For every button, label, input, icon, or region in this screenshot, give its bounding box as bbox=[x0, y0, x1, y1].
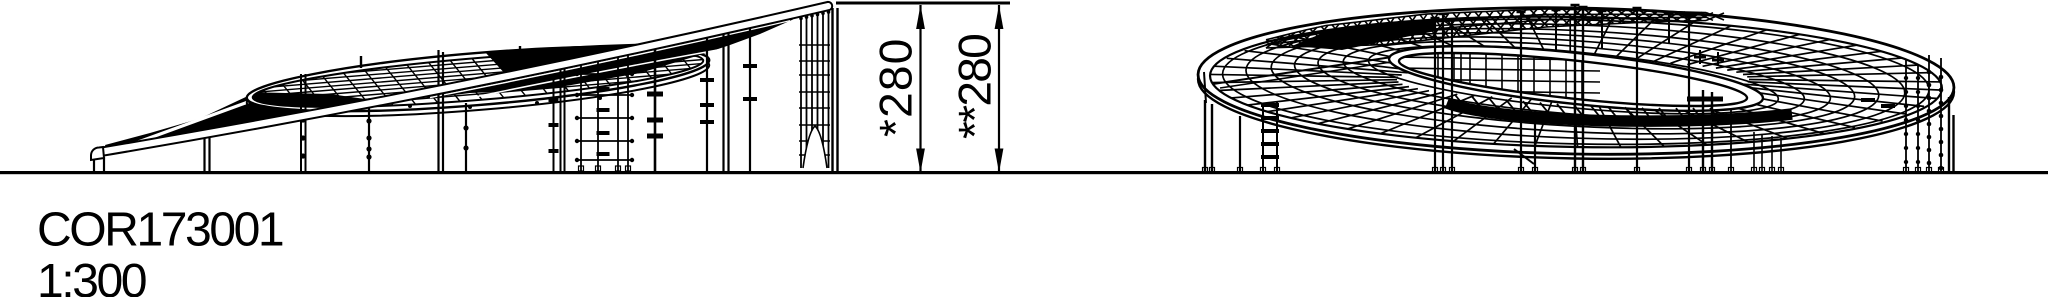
ground line bbox=[0, 171, 2048, 174]
ring outer rim bbox=[1197, 1, 1955, 160]
small connector dots under loop bbox=[408, 104, 412, 108]
dark sliver above tube bbox=[485, 43, 650, 73]
climbing ladder cluster x=578..630 bbox=[580, 60, 582, 173]
dimension line *280 bbox=[919, 5, 921, 173]
pole with steps x=655 bbox=[654, 45, 657, 173]
double post x=726 bbox=[722, 28, 724, 173]
net mesh inside loop bbox=[247, 40, 724, 117]
tall post x=441 (double) bbox=[437, 50, 439, 173]
rope x=466 bbox=[465, 103, 467, 173]
post pair x=562 bbox=[560, 56, 562, 173]
hanging net with arch opening bbox=[800, 12, 802, 168]
scale 1:300 bbox=[41, 263, 146, 297]
ring net mesh bbox=[1204, 12, 1948, 152]
net edge-on dark band under tube bbox=[420, 17, 793, 98]
start leg bbox=[94, 152, 104, 173]
spiral edge chord top-left bbox=[1213, 57, 1392, 84]
top extension line bbox=[836, 2, 1010, 5]
loop lower tube edge bbox=[245, 39, 712, 129]
drawing number COR173001 bbox=[39, 212, 282, 246]
spiral inner rail loop (flattened ellipse band) bbox=[245, 34, 712, 124]
label **280 bbox=[958, 35, 991, 138]
label *280 bbox=[879, 41, 912, 137]
inner rim tube bbox=[1386, 33, 1765, 124]
net seen edge-on, left dark wedge bbox=[105, 95, 343, 148]
dimension line **280 bbox=[998, 5, 1000, 173]
rope with small plates x=553.5 bbox=[553, 75, 555, 173]
far post ticks above loop bbox=[360, 56, 362, 68]
ring lower tube edge bbox=[1197, 6, 1955, 165]
main spiral tube (near rail) bbox=[96, 2, 832, 156]
interior hanging nets visible through hole bbox=[1395, 50, 1600, 116]
spiral band cut edge at left bbox=[1204, 72, 1206, 103]
rope with plates x=750 bbox=[749, 22, 751, 173]
white far-rail strip inside wedge bbox=[115, 102, 248, 151]
dense edge-on net hatch band along top bbox=[1266, 9, 1724, 48]
dark mesh patch inside loop left bbox=[246, 92, 365, 108]
solid dark core of wedge bbox=[1292, 19, 1436, 50]
dark edge-on net band along inner ring bbox=[1447, 103, 1792, 121]
post P1 (double) bbox=[203, 131, 205, 173]
right end double post bbox=[831, 8, 833, 173]
rope with plates x=707 bbox=[706, 34, 708, 173]
rope with knots at x=369 bbox=[368, 104, 370, 173]
rope with knots at x=303 (double) bbox=[300, 74, 302, 173]
right view posts bbox=[1204, 100, 1206, 173]
white rail streaks inside dark band bbox=[430, 21, 790, 98]
